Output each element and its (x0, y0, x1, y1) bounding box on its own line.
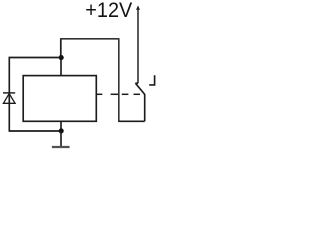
wire switch bottom terminal (144, 94, 146, 121)
node B junction dot bottom (59, 128, 64, 133)
wire node B to ground (60, 131, 62, 146)
dashed actuation link segment 4 (134, 93, 141, 95)
switch S1 blade (135, 83, 144, 94)
ground bar (52, 146, 70, 148)
switch blade jog (135, 82, 138, 84)
diode D1 cathode bar (3, 92, 15, 94)
wire coil top stub (60, 58, 62, 76)
dashed actuation link segment 3 (122, 93, 129, 95)
supply arrow head (136, 5, 140, 9)
supply arrow shaft / switch top terminal wire (137, 9, 139, 84)
label +12V (85, 0, 133, 22)
dashed actuation link segment 1 (96, 93, 102, 95)
wire node A to diode branch (9, 57, 62, 59)
wire bottom from diode to node B (9, 130, 62, 132)
node A junction dot top (59, 55, 64, 60)
wire bottom right to switch (118, 120, 145, 122)
wire diode branch left vertical (8, 58, 10, 132)
svg-text:+12V: +12V (85, 0, 133, 22)
wire node A drop to top rail (60, 39, 62, 58)
wire top rail (60, 38, 119, 40)
switch NC stationary contact stub (149, 75, 154, 85)
dashed actuation link segment 2 (111, 93, 119, 95)
wire coil bottom stub (60, 121, 62, 131)
relay coil box K1 (23, 76, 96, 122)
diode D1 triangle (3, 94, 15, 104)
wire riser right side (118, 38, 120, 121)
